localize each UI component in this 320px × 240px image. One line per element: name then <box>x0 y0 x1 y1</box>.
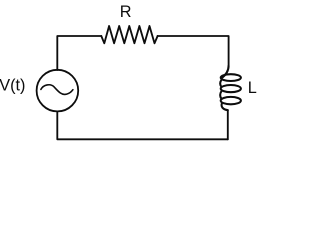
inductor connector 2 <box>220 91 221 99</box>
inductor loop 1 <box>221 74 241 81</box>
inductor loop 3 <box>221 97 241 104</box>
wire top-left segment <box>57 36 101 70</box>
svg-text:L: L <box>248 79 257 97</box>
inductor exit stroke <box>222 103 228 110</box>
sine wave inside source <box>41 85 73 95</box>
voltage source V(t) circle <box>37 70 79 112</box>
resistor R <box>101 26 157 43</box>
svg-text:V(t): V(t) <box>0 77 25 95</box>
wire bottom-right segment <box>227 110 229 139</box>
inductor connector 1 <box>220 80 221 87</box>
wire top-right segment <box>158 36 229 66</box>
svg-text:R: R <box>120 3 132 21</box>
wire bottom-left segment <box>57 111 228 139</box>
inductor loop 2 <box>221 85 241 92</box>
inductor L coil: entry stroke <box>221 66 228 78</box>
